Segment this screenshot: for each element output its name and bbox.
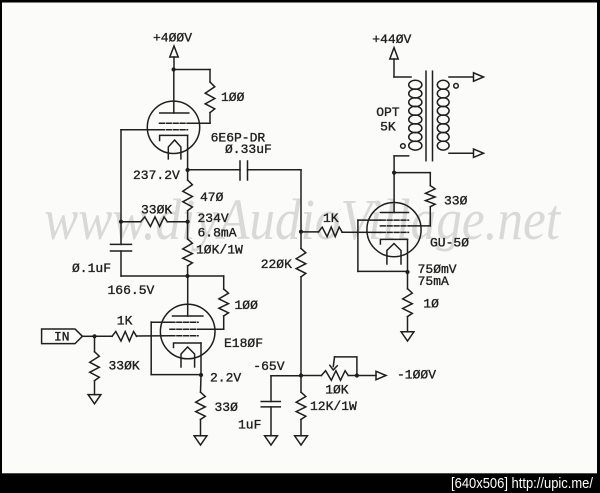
wire R10K to node 166.5V — [187, 266, 189, 276]
wire node 2.2V to R330 — [200, 375, 203, 392]
wire U3 g3 tie — [358, 219, 381, 221]
wire pot to node — [348, 375, 357, 377]
tube U3 grid g2 dashes — [380, 225, 408, 227]
node GU-50 cathode junction — [405, 270, 409, 274]
wire 1K to GU-50 g1 — [342, 231, 380, 233]
tube U3 anode plate — [380, 212, 408, 214]
resistor 330K (6E6P grid leak) — [141, 217, 168, 227]
arrow -100V — [376, 371, 386, 379]
wire cathode node to C 0.33uF — [188, 169, 240, 171]
ground (12K/1W) — [295, 436, 308, 445]
node GU-50 anode junction — [392, 171, 396, 175]
resistor 330 (GU-50 screen) — [426, 186, 436, 207]
svg-text:+4ØØV: +4ØØV — [153, 31, 192, 46]
svg-text:1K: 1K — [117, 314, 133, 329]
tube U2 grid g3 dashes — [170, 321, 198, 323]
wire R330K to grid rail — [121, 221, 141, 223]
tube U1 anode plate — [160, 112, 189, 114]
power +440V arrow — [390, 48, 398, 59]
wire R330 to ground — [200, 420, 202, 436]
arrow output top — [474, 73, 484, 81]
wire grid rail to C 0.1uF — [120, 222, 122, 245]
wire R330 to GU-50 g2 — [429, 207, 431, 226]
port IN tag — [42, 329, 83, 344]
wire +400V arrow to node — [173, 57, 175, 70]
svg-text:2.2V: 2.2V — [210, 371, 241, 386]
wire +440V to OPT primary — [393, 59, 395, 77]
svg-text:IN: IN — [54, 330, 70, 345]
potentiometer 10K body — [321, 371, 348, 381]
wire U2 g3-cathode bracket — [150, 322, 152, 375]
svg-text:234V: 234V — [198, 211, 229, 226]
transformer OPT secondary winding — [437, 80, 449, 89]
ground (GU-50 cathode) — [401, 332, 414, 341]
wire node to -100V arrow — [357, 375, 376, 377]
transformer OPT core — [425, 71, 427, 161]
wire anode node to R330 — [394, 172, 430, 174]
svg-text:33Ø: 33Ø — [215, 400, 239, 415]
svg-text:75mA: 75mA — [418, 274, 449, 289]
transformer secondary phase dot — [454, 84, 459, 89]
wire node to R330K — [167, 221, 187, 223]
wire node to 1K — [301, 231, 319, 233]
wire C 0.1uF to node 166.5V — [120, 251, 122, 276]
resistor 470 — [183, 180, 193, 211]
wire U3 g3-cathode bracket — [357, 220, 359, 271]
node grid rail junction — [119, 220, 123, 224]
wire 6E6P g1 left — [121, 129, 160, 131]
power +400V arrow — [170, 46, 178, 57]
svg-text:166.5V: 166.5V — [108, 283, 155, 298]
wire U2 g1 to 1K — [137, 335, 171, 337]
capacitor 0.33uF — [239, 161, 241, 180]
tube U2 E180F envelope — [160, 304, 215, 359]
tube U2 cathode — [174, 343, 202, 348]
tube U2 grid g1 dashes — [170, 335, 198, 337]
wire node -65V to C 1uF — [271, 375, 301, 377]
transformer OPT primary winding — [409, 80, 422, 89]
node 2.2V junction — [199, 373, 203, 377]
svg-text:47Ø: 47Ø — [200, 190, 224, 205]
wire node to R220K — [300, 232, 302, 249]
wire OPT secondary bottom out — [449, 152, 473, 154]
wire C 0.33uF to grid rail — [248, 169, 302, 171]
tube U2 anode lead — [187, 276, 189, 316]
wire node -65V to R12K — [300, 376, 302, 393]
svg-text:[640x506] http://upic.me/: [640x506] http://upic.me/ — [451, 475, 594, 492]
svg-text:E18ØF: E18ØF — [224, 336, 263, 351]
resistor 10K/1W — [183, 239, 193, 266]
svg-text:1ØK/1W: 1ØK/1W — [196, 243, 243, 258]
wire R10 to ground — [407, 317, 409, 332]
potentiometer 10K wiper arrow — [333, 357, 334, 367]
tube U2 grid g2 dashes — [170, 328, 198, 330]
node +400V junction — [172, 67, 176, 71]
arrow output bottom — [474, 149, 484, 157]
svg-text:-65V: -65V — [253, 359, 284, 374]
tube U1 anode lead — [173, 70, 175, 114]
tube U1 grid g1 dashes — [160, 129, 188, 131]
node 234V junction — [186, 220, 190, 224]
tube U3 anode lead — [393, 173, 395, 213]
wire R100 to 6E6P g2 — [209, 113, 211, 124]
resistor 1K (input) — [112, 332, 137, 342]
wire node 166.5V to R100 (E180F screen) — [188, 275, 224, 277]
wire IN to node — [82, 335, 94, 337]
svg-text:GU-5Ø: GU-5Ø — [430, 236, 469, 251]
svg-text:-1ØØV: -1ØØV — [397, 368, 436, 383]
wire node to R 100 top — [174, 69, 210, 71]
wire node to R1K — [95, 335, 113, 337]
ground (input) — [88, 395, 101, 404]
tube U1 cathode lead — [187, 135, 189, 170]
svg-text:1ØØ: 1ØØ — [235, 298, 259, 313]
wire R220K to node -65V — [300, 277, 302, 376]
resistor 330K (input) — [90, 352, 100, 381]
tube U2 anode plate — [173, 315, 203, 317]
svg-text:1K: 1K — [323, 211, 339, 226]
tube U3 grid g3 dashes — [380, 219, 408, 221]
wire cathode node to R470 — [187, 170, 189, 180]
svg-text:1Ø: 1Ø — [423, 297, 439, 312]
svg-text:Ø.33uF: Ø.33uF — [225, 142, 272, 157]
capacitor 1uF — [261, 401, 280, 403]
tube U2 heater — [181, 347, 195, 367]
svg-text:+44ØV: +44ØV — [372, 32, 411, 47]
svg-text:33ØK: 33ØK — [141, 203, 172, 218]
tube U3 cathode lead — [407, 239, 409, 272]
tube U1 6E6P-DR envelope — [147, 101, 199, 153]
node 166.5V junction — [185, 274, 189, 278]
tube U3 cathode — [380, 239, 407, 244]
wire R470 to node 234V — [187, 211, 189, 222]
wire input node to R330K — [94, 336, 96, 351]
wire U2 g3 tie — [151, 321, 170, 323]
ground (E180F cathode) — [194, 436, 207, 445]
svg-text:33ØK: 33ØK — [109, 359, 140, 374]
transformer primary phase dot — [401, 144, 406, 149]
svg-text:33Ø: 33Ø — [444, 194, 468, 209]
svg-text:12K/1W: 12K/1W — [310, 399, 357, 414]
svg-text:1ØK: 1ØK — [325, 383, 349, 398]
resistor 12K/1W — [296, 392, 306, 419]
tube U3 heater — [387, 244, 401, 265]
ground (1uF) — [265, 436, 278, 445]
tube U1 grid g2 dashes — [160, 122, 188, 124]
wire R12K to ground — [300, 420, 302, 436]
wire OPT secondary top out — [449, 76, 473, 78]
node pot wiper junction — [355, 373, 359, 377]
svg-text:1ØØ: 1ØØ — [221, 90, 245, 105]
resistor 1K (GU-50 grid stopper) — [319, 227, 343, 237]
resistor 330 (E180F cathode) — [196, 392, 206, 419]
tube U1 cathode — [160, 135, 188, 140]
wire OPT primary bottom to anode node — [394, 155, 409, 157]
svg-text:6.8mA: 6.8mA — [198, 226, 237, 241]
wire node -65V to pot — [301, 375, 321, 377]
resistor 100 (6E6P screen) — [205, 82, 215, 113]
tube U3 GU-50 envelope — [367, 203, 421, 257]
tube U3 grid g1 dashes — [380, 231, 408, 233]
tube U2 cathode lead — [200, 343, 202, 375]
wire R330K to ground — [94, 381, 96, 395]
svg-text:22ØK: 22ØK — [261, 257, 292, 272]
wire C 1uF to ground — [270, 407, 272, 436]
node -65V junction — [299, 373, 303, 377]
wire g1 rail down — [120, 130, 122, 222]
tube U1 heater — [168, 140, 181, 159]
resistor 10 (GU-50 cathode) — [403, 289, 413, 317]
wire node 234V to R10K — [187, 222, 189, 239]
node input junction — [92, 334, 96, 338]
resistor 100 (E180F screen) — [219, 289, 229, 316]
svg-text:Ø.1uF: Ø.1uF — [72, 261, 111, 276]
resistor 220K — [296, 248, 306, 276]
node 6E6P cathode junction — [186, 168, 190, 172]
capacitor 0.1uF — [111, 243, 132, 245]
wire R100 to E180F g2 — [223, 316, 225, 329]
svg-text:237.2V: 237.2V — [133, 168, 180, 183]
node GU-50 grid junction — [299, 230, 303, 234]
potentiometer 10K wiper tie — [335, 357, 357, 376]
svg-text:OPT: OPT — [376, 105, 400, 120]
wire cathode node to R10 — [407, 272, 409, 289]
svg-text:5K: 5K — [380, 120, 396, 135]
svg-text:1uF: 1uF — [238, 418, 261, 433]
